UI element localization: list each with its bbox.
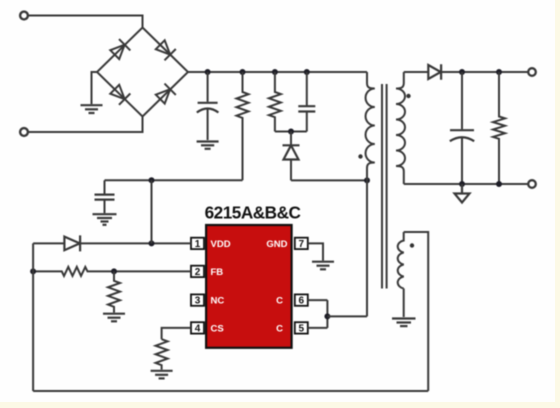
wire clamp diode to primary bottom [291,179,367,181]
svg-text:GND: GND [266,239,287,250]
VDD capacitor C2 [95,180,115,213]
wire bottom aux return [33,390,428,392]
transformer T1 aux winding [398,232,404,289]
bottom cream strip [0,402,560,408]
svg-text:6: 6 [299,296,305,307]
aux line vertical (left) [32,243,34,391]
output ground triangle [455,184,470,203]
transformer T1 secondary winding [396,72,405,184]
wire output rail top [441,71,528,73]
svg-text:CS: CS [211,324,224,335]
bulk capacitor C1 (polarized) [197,72,219,140]
input terminal J2 (neutral) [20,128,28,136]
node on rail at clamp cap [304,69,310,75]
wire startup resistor to VDD cap (y=180) [105,179,243,181]
ground GND7 (aux winding) [392,319,416,327]
CS resistor R6 [156,339,168,369]
node on aux line (FB tap) [30,268,36,274]
startup resistor R1 [237,72,249,180]
node on rail at startup resistor [240,69,246,75]
IC U1 pin 3 box [191,294,204,306]
output capacitor C4 (polarized) [450,72,474,184]
output terminal J4 [528,180,536,188]
bridge diode D4 (bottom to right) [155,84,176,105]
node on rail at clamp resistor [272,69,278,75]
node drain bracket [324,313,330,319]
node output cap bottom [459,181,465,187]
node clamp join [288,129,294,135]
node load resistor bottom [496,181,502,187]
ground GND2 (bulk cap) [197,142,219,149]
wire drain bracket vertical [326,300,328,328]
node load resistor top [496,69,502,75]
IC U1 pin 1 box [191,238,204,250]
FB series resistor R4 [33,267,191,276]
transformer T1 aux phase dot [410,243,414,247]
wire aux bottom to ground [403,289,405,318]
bridge diode D1 (left to top) [109,39,130,60]
svg-text:4: 4 [195,324,201,335]
transformer T1 secondary phase dot [406,94,410,98]
bridge diamond wires [97,28,188,117]
wire VDD node to top cap wire [151,180,153,243]
wire secondary top to output diode [404,71,429,73]
wire CS pin to resistor [162,328,191,339]
IC U1 pin 5 box [295,322,308,334]
node output cap top [459,69,465,75]
bridge diode D2 (top to right) [155,39,176,60]
node FB divider [111,268,117,274]
transformer T1 primary phase dot [358,154,362,158]
svg-text:VDD: VDD [211,239,231,250]
IC U1 pin 6 box [295,294,308,306]
svg-text:6215A&B&C: 6215A&B&C [205,203,301,223]
wire bridge left vertex to ground [92,72,98,104]
input terminal J1 (line) [20,12,28,20]
main HV rail [188,71,367,73]
node on rail at bulk cap [205,69,211,75]
transformer T1 core lines [382,84,387,289]
svg-text:C: C [276,296,283,307]
clamp diode D5 (cathode up) [283,132,300,181]
svg-text:NC: NC [211,296,225,307]
svg-text:FB: FB [211,267,224,278]
wire aux to VDD diode [33,242,64,244]
svg-text:2: 2 [195,267,201,278]
wire VDD diode to pin 1 [80,242,191,244]
FB lower resistor R5 [108,271,120,312]
bridge diode D3 (left to bottom) [109,84,130,105]
clamp resistor R2 [269,72,281,132]
node primary bottom / clamp [364,177,370,183]
ground GND4 (FB divider) [103,314,125,322]
svg-text:7: 7 [299,239,305,250]
VDD diode D7 [64,235,80,251]
clamp capacitor C3 [298,72,315,132]
IC U1 body [206,225,292,348]
ground GND3 (VDD cap) [93,214,117,225]
IC U1 pin 4 box [191,322,204,334]
wire J1 to bridge top [28,16,143,28]
svg-text:3: 3 [195,296,201,307]
IC U1 pin 7 box [295,238,308,250]
wire aux right vertical [404,232,429,391]
wire output rail bottom [404,183,529,185]
wire pin 7 to ground [308,243,323,260]
wire drain to primary bottom [327,315,367,317]
node VDD top wire [149,177,155,183]
right cream strip [555,0,560,408]
output terminal J3 [528,68,536,76]
svg-text:5: 5 [299,324,305,335]
wire clamp RC join [275,131,307,133]
wire pin 6 to drain bracket [308,299,328,301]
wire J2 to bridge bottom [28,117,143,133]
load resistor R3 [493,72,505,184]
svg-text:C: C [276,324,283,335]
output diode D6 [428,64,441,80]
node VDD [149,240,155,246]
ground GND6 (IC GND pin) [312,262,334,270]
IC U1 pin 2 box [191,266,204,278]
ground GND5 (CS resistor) [151,371,173,379]
transformer T1 primary winding [366,72,375,316]
ground GND1 (bridge) [81,105,103,113]
svg-text:1: 1 [195,239,201,250]
wire pin 5 to drain bracket [308,327,328,329]
